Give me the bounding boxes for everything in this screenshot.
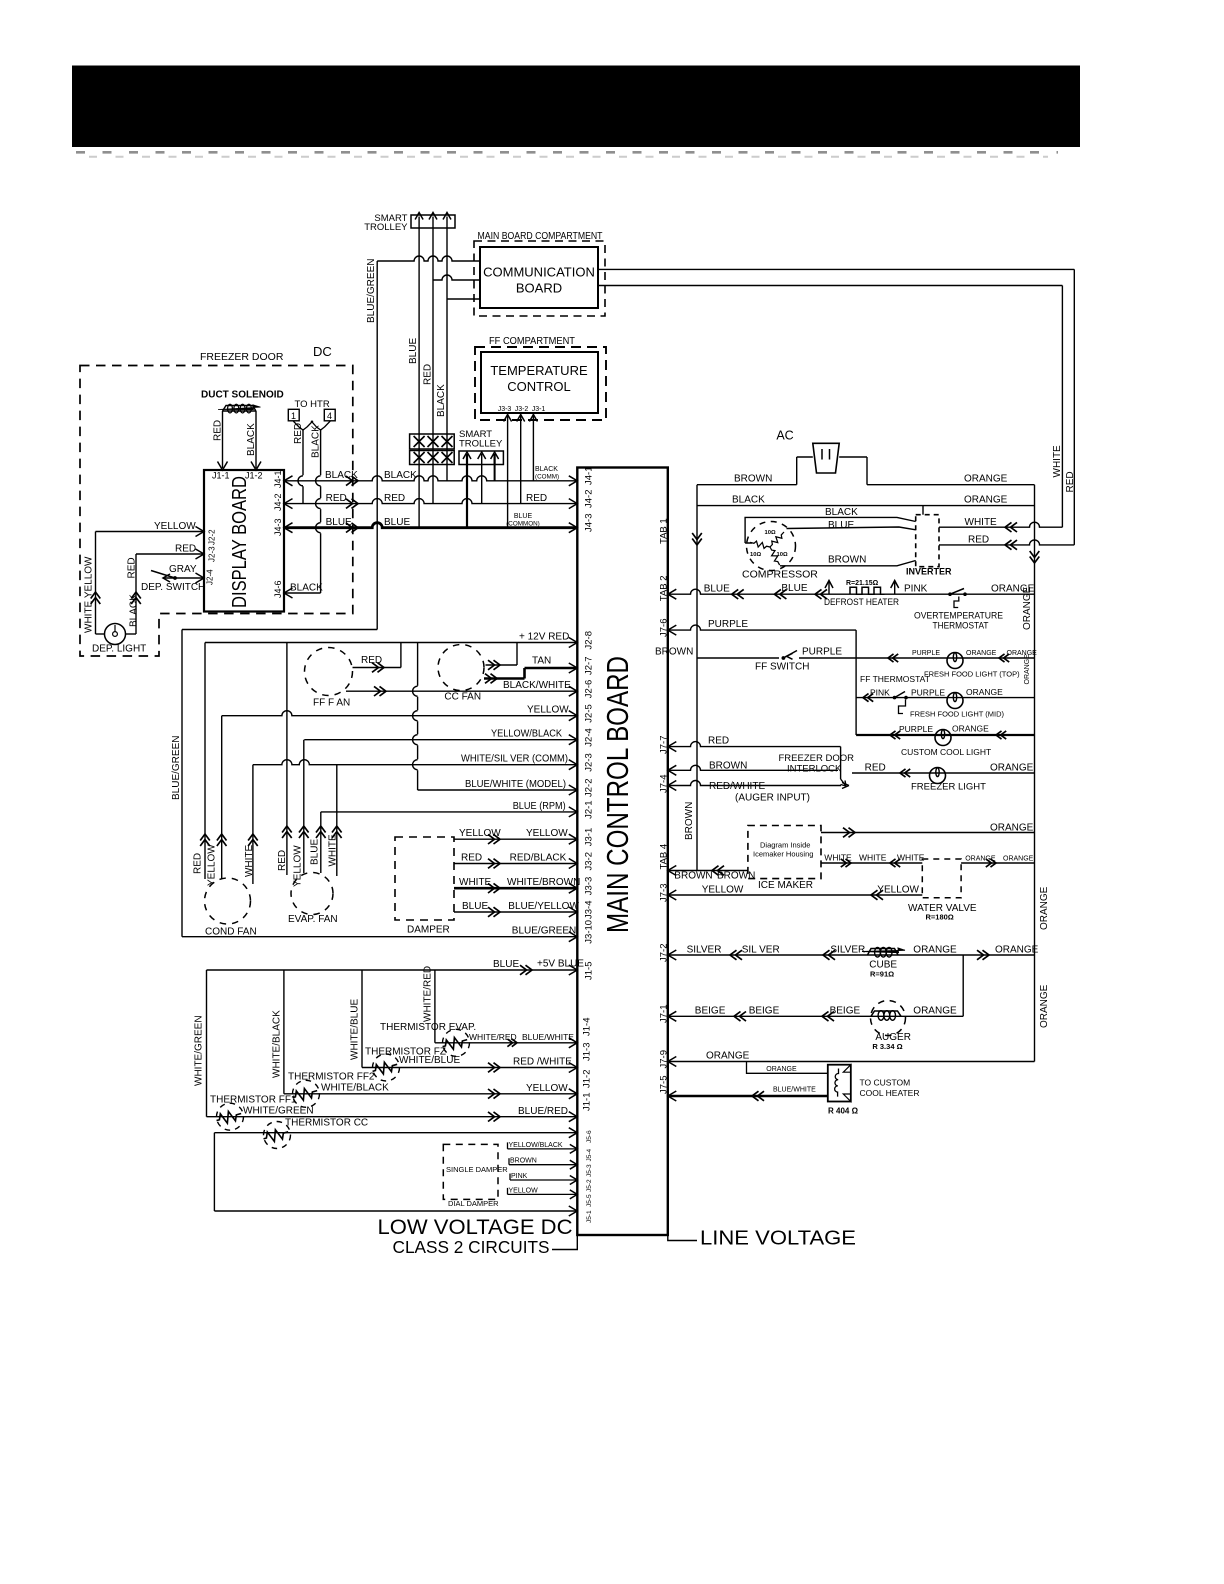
wire TO HTR pin1 RED: [293, 421, 313, 430]
wire J4-2 RED row: [284, 499, 577, 504]
svg-text:J5-1: J5-1: [586, 1210, 593, 1223]
wire icemaker ORANGE row: [821, 832, 1035, 834]
svg-text:J1-1: J1-1: [212, 471, 230, 481]
svg-text:FREEZER DOOR: FREEZER DOOR: [779, 753, 855, 764]
svg-text:YELLOW: YELLOW: [526, 828, 568, 839]
svg-text:PINK: PINK: [904, 584, 928, 595]
svg-text:ORANGE: ORANGE: [964, 474, 1008, 485]
svg-text:J7-5: J7-5: [659, 1076, 670, 1094]
svg-text:RED: RED: [175, 544, 196, 555]
thermistor CC RT5: [214, 1132, 577, 1134]
wire J4-6 BLACK to display board: [284, 592, 321, 594]
svg-text:YELLOW: YELLOW: [526, 1083, 568, 1094]
svg-text:J5-5: J5-5: [586, 1194, 593, 1207]
svg-text:PURPLE: PURPLE: [899, 724, 933, 734]
wire trolley2 to RED row: [481, 465, 483, 504]
wire freezer light row: [852, 772, 1035, 774]
svg-text:BLACK: BLACK: [129, 594, 140, 627]
wire duct solenoid RED lead: [222, 411, 224, 468]
svg-text:J1-1: J1-1: [582, 1093, 593, 1111]
svg-text:ORANGE: ORANGE: [706, 1051, 750, 1062]
svg-text:Icemaker Housing: Icemaker Housing: [753, 850, 813, 859]
cond fan YELLOW vertical: [221, 716, 223, 879]
svg-text:ORANGE: ORANGE: [966, 687, 1003, 697]
svg-text:R=180Ω: R=180Ω: [926, 913, 954, 922]
wire compressor BLACK: [745, 517, 916, 543]
svg-text:BLUE/GREEN: BLUE/GREEN: [512, 926, 576, 937]
FF switch S3: [779, 649, 799, 659]
svg-text:CLASS 2 CIRCUITS: CLASS 2 CIRCUITS: [393, 1237, 550, 1257]
wire custom cool light row: [856, 734, 1034, 736]
svg-text:WHITE: WHITE: [327, 834, 338, 867]
svg-text:J2-2: J2-2: [584, 779, 595, 797]
svg-text:YELLOW: YELLOW: [509, 1187, 539, 1194]
svg-text:BROWN: BROWN: [655, 647, 693, 658]
evap fan RED vertical: [286, 643, 288, 876]
inverter U5: [916, 515, 939, 567]
wire icemaker WHITE row: [821, 862, 922, 864]
wire J7-1 BEIGE row: [668, 1015, 963, 1017]
svg-text:BROWN: BROWN: [734, 474, 772, 485]
svg-text:(AUGER INPUT): (AUGER INPUT): [735, 793, 810, 804]
wire duct solenoid BLACK lead: [255, 411, 257, 468]
svg-text:(COMM): (COMM): [535, 474, 559, 481]
svg-text:COMMUNICATION: COMMUNICATION: [483, 265, 595, 280]
svg-text:J7-1: J7-1: [659, 1005, 670, 1023]
temperature control U3: [481, 352, 598, 413]
CC fan M2: [438, 645, 484, 691]
svg-text:PURPLE: PURPLE: [911, 688, 945, 698]
svg-text:COND FAN: COND FAN: [205, 927, 257, 938]
svg-text:WHITE/BLACK: WHITE/BLACK: [272, 1010, 283, 1078]
freezer light DS5: [930, 768, 946, 784]
svg-text:ORANGE: ORANGE: [1039, 886, 1050, 930]
svg-text:RED: RED: [193, 853, 204, 874]
svg-text:ORANGE: ORANGE: [966, 650, 997, 657]
svg-text:MAIN CONTROL BOARD: MAIN CONTROL BOARD: [600, 656, 635, 933]
svg-text:BLACK/WHITE: BLACK/WHITE: [503, 680, 571, 691]
svg-text:BLACK: BLACK: [325, 470, 358, 481]
wire compressor BROWN: [780, 561, 916, 566]
svg-text:BLACK: BLACK: [384, 470, 417, 481]
wire trolley2 to BLUE row: [466, 465, 468, 528]
svg-text:TAN: TAN: [532, 656, 551, 667]
svg-text:BOARD: BOARD: [516, 281, 562, 296]
wire J7-5 BLUE/WHITE row: [668, 1095, 828, 1098]
svg-text:RED: RED: [384, 493, 405, 504]
svg-text:J1-2: J1-2: [245, 471, 263, 481]
wire trolley BLACK vertical: [446, 228, 448, 481]
svg-text:BLUE: BLUE: [462, 901, 488, 912]
wire BLUE/GREEN vertical lower: [181, 630, 183, 937]
wire J2-1 BLUE RPM row: [321, 811, 578, 813]
svg-text:WHITE: WHITE: [897, 853, 925, 863]
svg-text:BROWN: BROWN: [684, 802, 695, 840]
svg-text:WHITE/BLACK: WHITE/BLACK: [321, 1083, 389, 1094]
wire J7-2 SILVER row: [668, 954, 1035, 956]
svg-text:WHITE/RED: WHITE/RED: [469, 1032, 517, 1042]
svg-text:RED: RED: [127, 557, 138, 578]
svg-text:CONTROL: CONTROL: [507, 379, 571, 394]
svg-text:WHITE: WHITE: [965, 517, 998, 528]
svg-text:BLUE: BLUE: [493, 959, 519, 970]
svg-text:PURPLE: PURPLE: [912, 650, 940, 657]
svg-text:BLUE/YELLOW: BLUE/YELLOW: [508, 901, 579, 912]
svg-text:WHITE/BLUE: WHITE/BLUE: [399, 1055, 460, 1066]
svg-text:THERMISTOR FF2: THERMISTOR FF2: [288, 1072, 375, 1083]
svg-text:RED: RED: [968, 535, 989, 546]
svg-text:FREEZER LIGHT: FREEZER LIGHT: [911, 782, 986, 793]
wire J2-6 BLACK/WHITE row: [346, 690, 577, 692]
svg-text:J4-3: J4-3: [273, 518, 283, 536]
wire J3-1 YELLOW row: [454, 838, 577, 840]
evap fan WHITE vertical: [336, 765, 338, 876]
wire FF switch light row: [697, 657, 1035, 659]
wire comm BLACK row: [447, 298, 480, 300]
svg-text:BLUE/WHITE: BLUE/WHITE: [522, 1032, 574, 1042]
svg-text:R=91Ω: R=91Ω: [870, 970, 894, 979]
svg-text:FF F AN: FF F AN: [313, 698, 350, 709]
communication board U2: [480, 247, 598, 308]
wire damper row y1194.4: [508, 1193, 578, 1195]
svg-text:BLUE (RPM): BLUE (RPM): [513, 801, 566, 812]
svg-text:BEIGE: BEIGE: [749, 1006, 780, 1017]
svg-text:BROWN: BROWN: [717, 870, 755, 881]
svg-text:J4-2: J4-2: [584, 490, 595, 508]
svg-text:J1-2: J1-2: [582, 1070, 593, 1088]
svg-text:J3-1: J3-1: [532, 406, 546, 413]
svg-text:R 404 Ω: R 404 Ω: [828, 1107, 859, 1116]
svg-text:J2-4: J2-4: [584, 728, 595, 746]
svg-text:WHITE/GREEN: WHITE/GREEN: [194, 1015, 205, 1086]
svg-text:J3-10: J3-10: [584, 920, 595, 944]
wire J2-5 YELLOW row: [222, 711, 578, 716]
svg-text:BROWN: BROWN: [828, 555, 866, 566]
svg-text:ORANGE: ORANGE: [913, 945, 957, 956]
svg-text:BLUE: BLUE: [326, 517, 352, 528]
svg-text:WHITE: WHITE: [859, 853, 887, 863]
wire FF thermostat vertical: [855, 630, 857, 735]
svg-text:BLACK: BLACK: [246, 423, 257, 456]
svg-text:PURPLE: PURPLE: [708, 619, 748, 630]
wire communication board to inverter RED: [598, 268, 1074, 270]
wire BLUE/GREEN horizontal link: [182, 629, 377, 631]
svg-text:BLUE/GREEN: BLUE/GREEN: [171, 736, 182, 800]
wire RED to J2-3: [136, 553, 204, 555]
svg-text:FRESH FOOD LIGHT (TOP): FRESH FOOD LIGHT (TOP): [924, 670, 1020, 679]
svg-text:J2-4: J2-4: [206, 569, 215, 585]
connector pin 1 TO HTR: [288, 409, 299, 421]
wire trolley RED vertical: [432, 228, 434, 504]
evap fan M4: [291, 873, 333, 915]
svg-text:R 3.34 Ω: R 3.34 Ω: [872, 1042, 902, 1051]
svg-text:RED/BLACK: RED/BLACK: [510, 853, 567, 864]
wire WHITE into inverter: [939, 522, 1062, 527]
svg-text:YELLOW/BLACK: YELLOW/BLACK: [491, 729, 562, 740]
svg-text:DAMPER: DAMPER: [407, 925, 450, 936]
svg-text:ORANGE: ORANGE: [766, 1066, 797, 1073]
svg-text:RED: RED: [293, 423, 304, 444]
svg-text:J2-7: J2-7: [584, 657, 595, 675]
svg-text:RED: RED: [461, 853, 482, 864]
svg-text:DC: DC: [313, 344, 332, 359]
svg-text:RED: RED: [277, 850, 288, 871]
wire J7-7 RED row: [668, 742, 841, 747]
svg-text:LOW VOLTAGE DC: LOW VOLTAGE DC: [378, 1215, 573, 1239]
svg-text:Diagram Inside: Diagram Inside: [760, 841, 810, 850]
svg-text:RED: RED: [326, 493, 347, 504]
svg-text:THERMISTOR EVAP.: THERMISTOR EVAP.: [380, 1022, 476, 1033]
svg-text:YELLOW/BLACK: YELLOW/BLACK: [509, 1142, 563, 1149]
svg-text:J5-2: J5-2: [586, 1179, 593, 1192]
wire ORANGE bus right: [1034, 485, 1036, 1062]
wire J2-7 TAN: [525, 667, 578, 670]
leader line class 2 circuits: [552, 1235, 577, 1250]
svg-text:ORANGE: ORANGE: [965, 856, 996, 863]
wire thermistor CC loop: [213, 1133, 215, 1211]
svg-text:YELLOW: YELLOW: [527, 705, 569, 716]
svg-text:TO HTR: TO HTR: [295, 399, 330, 410]
wire compressor BLUE: [787, 527, 916, 530]
svg-text:SINGLE DAMPER: SINGLE DAMPER: [446, 1165, 508, 1174]
custom cool light DS4: [935, 730, 951, 746]
FF compartment dashed box: [475, 347, 606, 420]
svg-text:BLUE: BLUE: [514, 513, 533, 520]
svg-text:BROWN: BROWN: [709, 761, 747, 772]
svg-text:SIL VER: SIL VER: [742, 945, 780, 956]
svg-text:J7-7: J7-7: [659, 736, 670, 754]
svg-text:INVERTER: INVERTER: [906, 567, 952, 577]
junction box upper: [410, 434, 455, 449]
svg-text:WHITE: WHITE: [1052, 445, 1063, 478]
wire TAB2 defrost row: [668, 589, 1035, 594]
svg-text:J7-6: J7-6: [659, 619, 670, 637]
wire trolley2 to BLACK row: [494, 465, 496, 481]
svg-text:THERMOSTAT: THERMOSTAT: [933, 621, 989, 632]
svg-text:RED: RED: [423, 364, 434, 385]
svg-text:TAB 1: TAB 1: [659, 518, 670, 544]
svg-text:ORANGE: ORANGE: [1022, 586, 1033, 630]
wire FF fan red feed: [400, 643, 402, 668]
svg-text:BROWN: BROWN: [510, 1158, 537, 1165]
svg-text:CUSTOM COOL LIGHT: CUSTOM COOL LIGHT: [901, 747, 991, 757]
fresh food light top DS2: [947, 653, 963, 669]
svg-text:ICE MAKER: ICE MAKER: [758, 880, 813, 891]
svg-text:J1-5: J1-5: [584, 962, 595, 980]
leader line line voltage: [668, 1235, 697, 1241]
wire WHITE/RED vertical: [434, 970, 436, 1043]
svg-text:+5V BLUE: +5V BLUE: [537, 959, 584, 970]
smart trolley 2 connector: [459, 451, 503, 528]
svg-text:GRAY: GRAY: [169, 564, 197, 575]
svg-text:J4-6: J4-6: [273, 580, 283, 598]
wire J3-10 BLUE/GREEN row: [182, 936, 577, 938]
svg-text:PINK: PINK: [511, 1173, 528, 1180]
wire inverter top feed: [922, 506, 924, 515]
svg-text:MAIN BOARD COMPARTMENT: MAIN BOARD COMPARTMENT: [478, 231, 603, 242]
svg-text:J7-9: J7-9: [659, 1050, 670, 1068]
svg-text:ORANGE: ORANGE: [990, 823, 1034, 834]
svg-text:10Ω: 10Ω: [777, 552, 788, 558]
wire J7-3 YELLOW row: [668, 894, 923, 896]
svg-text:FF COMPARTMENT: FF COMPARTMENT: [489, 336, 575, 347]
wire WHITE YELLOW vertical to dep light: [95, 532, 97, 635]
svg-text:ORANGE: ORANGE: [1039, 984, 1050, 1028]
svg-text:J3-2: J3-2: [515, 406, 529, 413]
wire WHITE/BLACK vertical: [283, 970, 285, 1094]
wire RED BLACK vertical to dep light: [135, 554, 137, 634]
FF fan M1: [305, 648, 353, 696]
damper dashed box: [395, 837, 454, 920]
svg-text:RED: RED: [865, 763, 886, 774]
svg-text:YELLOW: YELLOW: [293, 845, 304, 887]
svg-text:WHITE/GREEN: WHITE/GREEN: [243, 1106, 314, 1117]
svg-text:J3-4: J3-4: [584, 901, 595, 919]
wire damper row y1180: [510, 1179, 577, 1181]
wire cube to auger vertical: [962, 955, 964, 1016]
wire J4-1 BLACK row: [284, 476, 577, 481]
evap fan YELLOW vertical: [303, 740, 305, 873]
svg-text:J3-3: J3-3: [584, 877, 595, 895]
svg-text:BLUE: BLUE: [828, 520, 854, 531]
svg-text:10Ω: 10Ω: [765, 530, 776, 536]
svg-text:1: 1: [291, 411, 296, 421]
svg-text:(COMMON): (COMMON): [506, 520, 540, 527]
svg-text:J3-1: J3-1: [584, 828, 595, 846]
svg-text:J2-2: J2-2: [208, 529, 217, 545]
cube heater R2 coil: [866, 947, 897, 954]
wire J4-3 BLUE row: [284, 523, 577, 528]
svg-text:DIAL DAMPER: DIAL DAMPER: [448, 1199, 499, 1208]
wire BLACK inverter row: [697, 505, 1035, 507]
svg-text:10Ω: 10Ω: [750, 552, 761, 558]
svg-text:PINK: PINK: [870, 688, 890, 698]
svg-text:ORANGE: ORANGE: [964, 495, 1008, 506]
svg-text:WHITE: WHITE: [824, 853, 852, 863]
display board U1: [204, 470, 284, 612]
svg-text:ORANGE: ORANGE: [990, 763, 1034, 774]
svg-text:YELLOW: YELLOW: [702, 885, 744, 896]
thermistor FZ RT2: [362, 1067, 577, 1069]
svg-text:BLUE/WHITE: BLUE/WHITE: [773, 1087, 816, 1094]
wire TAB4 BROWN row: [668, 870, 748, 872]
main board compartment dashed box: [474, 241, 605, 316]
water valve dashed box: [922, 859, 961, 898]
svg-text:J2-3: J2-3: [584, 753, 595, 771]
svg-text:BEIGE: BEIGE: [830, 1006, 861, 1017]
wire J7-9 ORANGE row: [668, 1061, 1035, 1063]
svg-text:TROLLEY: TROLLEY: [459, 439, 503, 450]
wire water valve ORANGE row: [961, 862, 1034, 864]
svg-text:BLACK: BLACK: [732, 495, 765, 506]
svg-text:TAB 4: TAB 4: [659, 844, 670, 870]
svg-text:J7-4: J7-4: [659, 775, 670, 793]
svg-text:FF THERMOSTAT: FF THERMOSTAT: [860, 674, 930, 684]
wire J3-3 WHITE/BROWN row: [454, 887, 577, 890]
svg-text:COMPRESSOR: COMPRESSOR: [742, 569, 818, 581]
compressor M5: [745, 515, 939, 571]
svg-text:AC: AC: [776, 429, 793, 443]
svg-text:WHITE/BLUE: WHITE/BLUE: [350, 999, 361, 1060]
wire +12V to J2-2 vertical: [417, 643, 419, 791]
svg-text:YELLOW: YELLOW: [877, 885, 919, 896]
wire BLUE/GREEN vertical upper: [376, 261, 378, 630]
svg-text:DEP. SWITCH: DEP. SWITCH: [141, 582, 205, 593]
svg-text:RED: RED: [1065, 471, 1076, 492]
svg-text:RED: RED: [526, 493, 547, 504]
svg-text:RED: RED: [708, 736, 729, 747]
svg-text:ORANGE: ORANGE: [995, 945, 1039, 956]
title header bar: [72, 66, 1080, 148]
wire J2-4 YELLOW/BLACK row: [304, 739, 577, 741]
wire J7-4 RED/WHITE auger input row: [668, 781, 841, 786]
svg-text:INTERLOCK: INTERLOCK: [787, 764, 842, 775]
svg-text:RED: RED: [361, 655, 382, 666]
wire BLUE/GREEN comm row: [377, 256, 480, 261]
svg-text:BLUE/RED: BLUE/RED: [518, 1106, 568, 1117]
svg-text:SILVER: SILVER: [687, 945, 722, 956]
wire WHITE/BLUE vertical: [361, 970, 363, 1068]
svg-text:J5-4: J5-4: [586, 1148, 593, 1161]
svg-text:+ 12V RED: + 12V RED: [519, 632, 569, 643]
svg-text:BEIGE: BEIGE: [695, 1006, 726, 1017]
thermistor EVAP RT1: [435, 1042, 577, 1044]
svg-text:BLACK: BLACK: [436, 384, 447, 417]
svg-text:BLUE: BLUE: [384, 517, 410, 528]
evap fan BLUE vertical: [320, 812, 322, 873]
svg-text:SILVER: SILVER: [830, 945, 865, 956]
svg-text:J5-3: J5-3: [586, 1164, 593, 1177]
svg-text:TROLLEY: TROLLEY: [364, 222, 408, 233]
svg-text:TEMPERATURE: TEMPERATURE: [490, 363, 588, 378]
FF thermostat switch S4: [893, 696, 897, 700]
svg-text:DEFROST HEATER: DEFROST HEATER: [824, 597, 899, 608]
svg-text:J4-3: J4-3: [584, 514, 595, 532]
wire J7-6 PURPLE row: [668, 625, 856, 630]
wire WHITE/GREEN vertical: [206, 970, 208, 1117]
svg-text:BLACK: BLACK: [825, 507, 858, 518]
auger motor M6: [871, 1001, 906, 1036]
svg-text:BLUE: BLUE: [310, 839, 321, 865]
wire J2-8 +12V RED row: [205, 642, 577, 644]
svg-text:TO CUSTOM: TO CUSTOM: [860, 1078, 911, 1088]
cond fan WHITE vertical: [252, 765, 254, 884]
svg-text:BLUE/WHITE (MODEL): BLUE/WHITE (MODEL): [465, 779, 566, 790]
wire ORANGE AC row: [839, 456, 867, 458]
wire PINK fresh food mid row: [856, 697, 1034, 699]
svg-text:DISPLAY BOARD: DISPLAY BOARD: [229, 476, 251, 608]
svg-text:R=21.15Ω: R=21.15Ω: [846, 580, 879, 587]
wire trolley BLUE vertical: [418, 228, 420, 528]
main control board U4: [577, 468, 668, 1236]
svg-text:J5-6: J5-6: [586, 1130, 593, 1143]
wire orange tap to heater: [747, 1062, 828, 1074]
wire J3-2 RED: [520, 414, 522, 504]
single damper dashed box: [443, 1144, 498, 1199]
svg-text:ORANGE: ORANGE: [1007, 650, 1038, 657]
svg-text:FRESH FOOD LIGHT (MID): FRESH FOOD LIGHT (MID): [910, 710, 1005, 719]
svg-text:FF SWITCH: FF SWITCH: [755, 662, 809, 673]
svg-text:J2-3: J2-3: [208, 546, 217, 562]
svg-text:DUCT SOLENOID: DUCT SOLENOID: [201, 390, 284, 401]
wire CC fan red feed: [516, 643, 518, 666]
smart trolley 1 connector: [411, 215, 455, 228]
junction box lower: [410, 451, 455, 465]
svg-text:J1-3: J1-3: [582, 1043, 593, 1061]
svg-text:THERMISTOR FF1: THERMISTOR FF1: [210, 1095, 297, 1106]
cond fan M3: [205, 878, 251, 924]
wire J3-3 BLUE common: [507, 414, 509, 528]
